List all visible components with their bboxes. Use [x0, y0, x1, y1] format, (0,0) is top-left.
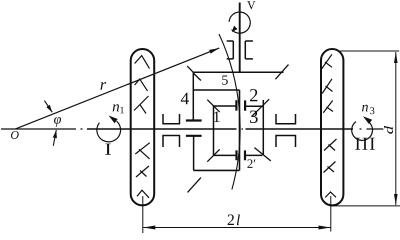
shaft V vertical	[239, 3, 241, 73]
dimension 2l left extension line	[142, 196, 144, 233]
gear 4/5 mesh tick upper	[193, 73, 201, 81]
carrier frame top	[193, 89, 239, 91]
label 3	[250, 111, 258, 123]
label r	[101, 82, 107, 90]
node centerline dot mid	[242, 128, 244, 130]
shaft III	[246, 128, 354, 130]
wire centerline left dash-dot	[1, 128, 83, 130]
label 2l	[228, 214, 240, 225]
dimension d bottom extension line	[331, 205, 400, 207]
label shaft I	[105, 144, 111, 155]
gear 5 crown line	[193, 71, 283, 73]
label 2	[250, 89, 257, 101]
mesh teeth lower pair	[237, 150, 246, 160]
gear 4 lower rim and stem	[186, 136, 202, 171]
gear 4 upper stem and rim	[186, 72, 202, 120]
gear 3 line	[262, 100, 264, 155]
label 1	[214, 111, 220, 122]
label n3	[362, 105, 374, 114]
dimension 2l line with arrows	[143, 226, 330, 230]
gear 5 left end tick	[187, 66, 193, 72]
gear 2' line	[245, 154, 262, 156]
rotation arrow n1	[97, 116, 121, 142]
right wheel hatch marks	[322, 54, 337, 197]
shaft V right bearing	[245, 41, 253, 59]
right wheel tire	[321, 49, 343, 205]
carrier frame bottom	[194, 169, 240, 171]
rotation arrow n3	[352, 116, 373, 140]
dimension d top extension line	[340, 50, 399, 52]
label 5	[222, 75, 228, 84]
gear 2'/3 mesh tick	[254, 148, 270, 161]
dimension d line with arrows	[394, 52, 398, 205]
wire phi arrow to line r	[44, 101, 52, 113]
label n1	[113, 104, 124, 113]
gear 1 lower-left bevel tick	[207, 149, 219, 161]
left wheel tire	[131, 49, 155, 205]
label V	[247, 1, 255, 9]
wire phi arrow to centerline	[53, 130, 57, 146]
right bearing on shaft III	[275, 114, 296, 147]
carrier frame right	[239, 90, 241, 170]
gear 5 lower mirror tick	[188, 178, 201, 193]
gear 1 upper-left bevel tick	[207, 100, 219, 112]
shaft I	[87, 128, 237, 130]
wire radius line r with arrow	[15, 48, 219, 129]
label shaft III	[355, 138, 374, 150]
wire turning-path arc	[219, 34, 240, 190]
left wheel hatch marks	[134, 56, 150, 198]
gear 1 body	[214, 106, 237, 155]
gear 2/3 mesh tick	[252, 99, 270, 116]
node O label	[11, 131, 19, 139]
gear 2 line	[245, 105, 263, 107]
left bearing on shaft I	[162, 114, 180, 147]
label 2 prime	[247, 159, 255, 168]
label phi	[54, 117, 61, 127]
dimension 2l right extension line	[330, 196, 332, 232]
shaft V left bearing	[227, 41, 234, 59]
wire centerline right dash-dot	[360, 128, 384, 130]
rotation arrow on shaft V	[229, 12, 250, 33]
mesh teeth upper pair	[236, 100, 245, 111]
label 4	[181, 93, 189, 104]
label d rotated	[384, 126, 393, 134]
gear 5 right end tick	[275, 65, 288, 80]
